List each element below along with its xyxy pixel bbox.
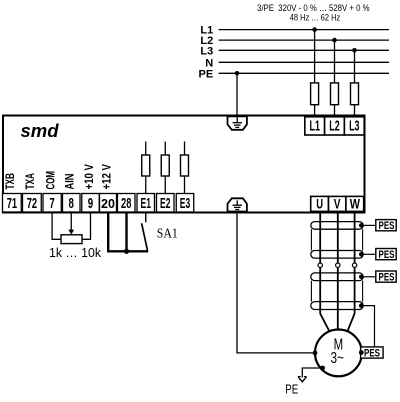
- svg-text:71: 71: [7, 195, 17, 212]
- wire clamp to motor PE: [237, 213, 315, 353]
- terminal 71: [3, 194, 22, 213]
- label PES 2: [376, 249, 396, 261]
- wire phase W cable: [347, 211, 355, 332]
- svg-text:W: W: [350, 196, 361, 212]
- junction shield S2 to motor PES: [359, 303, 375, 347]
- net L1 rail: [200, 25, 389, 37]
- terminal 72: [23, 194, 42, 213]
- wire terminal 20 down: [107, 213, 109, 252]
- terminal 20: [100, 194, 117, 213]
- wire phase V cable: [337, 211, 339, 331]
- svg-text:PES: PES: [379, 271, 395, 283]
- terminal E3: [176, 194, 194, 213]
- inverter U1 smd enclosure: [3, 116, 365, 213]
- terminal L1 input: [305, 117, 325, 135]
- junction motor left: [313, 351, 318, 356]
- svg-text:AIN: AIN: [65, 174, 77, 190]
- wire bus to switch: [107, 250, 148, 252]
- svg-text:PES: PES: [379, 249, 395, 261]
- svg-text:TXB: TXB: [5, 173, 17, 190]
- terminal E2: [157, 194, 175, 213]
- wire PE to shield clamp: [236, 73, 238, 115]
- wire L1 to fuse F1: [314, 30, 316, 83]
- shield S1 bottom bar: [311, 251, 363, 259]
- wire motor to PE arrow: [302, 368, 322, 378]
- svg-text:E2: E2: [160, 195, 170, 212]
- shield S2 sides: [311, 281, 362, 302]
- wire phase U cable: [320, 211, 330, 332]
- svg-text:7: 7: [49, 195, 54, 212]
- svg-text:U: U: [316, 196, 323, 212]
- svg-text:8: 8: [69, 195, 74, 212]
- svg-text:V: V: [334, 196, 341, 212]
- label PES 3: [376, 271, 396, 283]
- wire terminal 7 to potentiometer: [52, 213, 61, 240]
- net PE rail: [199, 68, 389, 80]
- fuse F3: [351, 83, 359, 117]
- terminal 8: [63, 194, 81, 213]
- svg-text:+10 V: +10 V: [84, 164, 96, 190]
- fuse F1: [311, 83, 319, 117]
- resistor input E2: [161, 142, 169, 194]
- terminal 28: [118, 194, 136, 213]
- shield S1 top bar: [311, 222, 363, 230]
- terminal U output: [311, 196, 329, 212]
- wire terminal 28 down: [125, 213, 127, 252]
- terminal E1: [137, 194, 155, 213]
- junction shield S1 bottom PES: [359, 252, 376, 257]
- junction motor PE: [320, 366, 325, 371]
- net L2 rail: [200, 35, 389, 47]
- resistor input E1: [142, 142, 150, 194]
- svg-text:L3: L3: [349, 118, 359, 134]
- connector plug V: [336, 263, 340, 267]
- shield S2 top bar: [311, 273, 363, 281]
- junction PE tap: [235, 71, 240, 76]
- terminal V output: [329, 196, 346, 212]
- terminal L3 input: [344, 117, 364, 135]
- label PES 1: [376, 220, 396, 232]
- terminal L2 input: [325, 117, 345, 135]
- net L3 rail: [200, 45, 389, 57]
- junction L2 tap: [332, 38, 337, 43]
- svg-text:PES: PES: [379, 220, 395, 232]
- junction L1 tap: [312, 27, 317, 32]
- svg-text:3~: 3~: [330, 350, 344, 367]
- junction L3 tap: [352, 48, 357, 53]
- connector plug W: [352, 263, 356, 267]
- junction motor right: [359, 350, 364, 355]
- junction 28 bus: [124, 249, 129, 254]
- svg-text:PES: PES: [364, 347, 380, 359]
- svg-text:48 Hz … 62 Hz: 48 Hz … 62 Hz: [290, 13, 341, 24]
- motor M1: [315, 330, 362, 377]
- svg-text:PE: PE: [285, 383, 298, 397]
- svg-text:L2: L2: [329, 118, 339, 134]
- svg-text:20: 20: [101, 197, 115, 211]
- wire L2 to fuse F2: [334, 40, 336, 83]
- svg-text:9: 9: [88, 195, 93, 212]
- svg-text:E3: E3: [180, 195, 190, 212]
- junction shield S1 top PES: [359, 223, 376, 228]
- shield S2 bottom bar: [311, 302, 363, 310]
- svg-text:1k … 10k: 1k … 10k: [49, 246, 102, 260]
- svg-text:E1: E1: [141, 195, 151, 212]
- terminal W output: [346, 196, 364, 212]
- switch SA1: [142, 213, 178, 251]
- shield clamp bottom PE: [228, 198, 247, 211]
- label PES 4 motor: [361, 347, 384, 359]
- net N rail: [205, 57, 389, 69]
- PE arrow symbol: [298, 377, 307, 382]
- svg-text:72: 72: [27, 195, 37, 212]
- junction shield S2 top PES: [359, 275, 376, 280]
- potentiometer wiper from terminal 8: [68, 213, 74, 235]
- wire L3 to fuse F3: [354, 50, 356, 83]
- svg-text:L1: L1: [310, 118, 320, 134]
- fuse F2: [331, 83, 339, 117]
- svg-text:28: 28: [121, 195, 131, 212]
- shield S1 sides: [311, 229, 362, 250]
- resistor input E3: [181, 142, 189, 194]
- svg-text:smd: smd: [21, 120, 60, 141]
- shield clamp top PE: [228, 116, 247, 130]
- mains rating label: [257, 3, 370, 24]
- svg-text:+12 V: +12 V: [101, 164, 113, 190]
- terminal 9: [82, 194, 100, 213]
- svg-text:L3: L3: [200, 45, 213, 57]
- connector plug U: [318, 263, 322, 267]
- terminal 7: [43, 194, 61, 213]
- wire terminal 9 to potentiometer: [82, 213, 91, 240]
- potentiometer R1 body: [61, 235, 82, 244]
- svg-text:PE: PE: [199, 68, 214, 80]
- svg-text:COM: COM: [45, 171, 57, 190]
- svg-text:TXA: TXA: [25, 173, 37, 190]
- svg-text:SA1: SA1: [157, 226, 178, 241]
